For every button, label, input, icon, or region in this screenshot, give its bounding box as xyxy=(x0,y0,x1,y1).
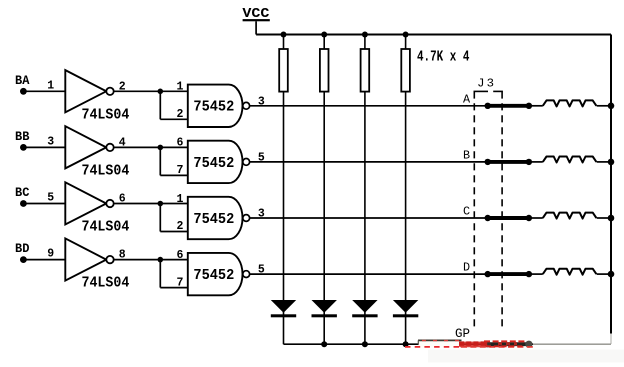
wire inverter output pin 8 to NAND pin 6 xyxy=(114,249,188,262)
diode D3 xyxy=(352,300,377,317)
svg-text:7: 7 xyxy=(177,276,184,289)
resistor R1 4.7K xyxy=(279,49,288,92)
svg-text:4.7K x 4: 4.7K x 4 xyxy=(417,50,470,66)
svg-text:A: A xyxy=(463,92,471,106)
node BD input terminal xyxy=(15,242,30,263)
inverter U1D 74LS04 xyxy=(65,238,129,291)
svg-text:74LS04: 74LS04 xyxy=(82,106,130,123)
wire inverter output pin 2 to NAND pin 1 xyxy=(114,80,188,93)
wire column 3 vertical xyxy=(364,35,366,345)
wire coil to right rail B xyxy=(597,161,611,163)
wire bar to coil C xyxy=(529,217,543,219)
power VCC xyxy=(242,6,270,34)
wire column 4 vertical xyxy=(405,35,407,345)
svg-text:1: 1 xyxy=(177,193,184,206)
connector bar B xyxy=(485,159,533,165)
junction right rail B xyxy=(608,159,615,166)
svg-text:BC: BC xyxy=(15,186,30,200)
svg-text:6: 6 xyxy=(177,137,184,150)
junction right rail D xyxy=(608,271,615,278)
svg-text:3: 3 xyxy=(47,135,54,148)
svg-text:J: J xyxy=(477,76,484,90)
resistor R2 4.7K xyxy=(320,49,329,92)
driver U2C 75452 xyxy=(188,197,250,239)
svg-text:74LS04: 74LS04 xyxy=(82,219,130,236)
svg-text:BD: BD xyxy=(15,242,30,256)
connector J3 outline xyxy=(474,76,503,326)
svg-text:9: 9 xyxy=(47,248,54,261)
inverter U1A 74LS04 xyxy=(65,70,129,123)
inductor L2 phase B xyxy=(543,157,597,163)
connector bar D xyxy=(485,271,533,277)
driver U2B 75452 xyxy=(188,141,250,183)
svg-text:6: 6 xyxy=(119,193,126,206)
wire BD to inverter, pin 9 xyxy=(23,248,65,261)
wire coil to right rail D xyxy=(597,273,611,275)
diode D2 xyxy=(312,300,337,317)
wire feedback to NAND pin 7 xyxy=(160,147,188,177)
connector bar GP xyxy=(485,341,533,348)
svg-text:7: 7 xyxy=(177,164,184,177)
wire NAND output pin 3 line C xyxy=(250,208,488,221)
svg-text:5: 5 xyxy=(47,192,54,205)
svg-text:3: 3 xyxy=(258,95,265,108)
inductor L4 phase D xyxy=(543,269,597,275)
junction right rail A xyxy=(608,103,615,110)
svg-text:75452: 75452 xyxy=(193,99,234,116)
svg-text:GP: GP xyxy=(455,326,470,341)
inverter U1C 74LS04 xyxy=(65,182,129,235)
inductor L3 phase C xyxy=(543,213,597,219)
junction inverter output row BA xyxy=(158,89,164,95)
diode D1 xyxy=(271,300,296,317)
svg-text:6: 6 xyxy=(177,249,184,262)
wire bar to coil A xyxy=(529,105,543,107)
connector bar C xyxy=(485,215,533,221)
node BA input terminal xyxy=(15,74,30,95)
wire VCC rail xyxy=(256,34,611,36)
svg-text:2: 2 xyxy=(177,220,184,233)
svg-text:74LS04: 74LS04 xyxy=(82,275,130,292)
connector bar A xyxy=(485,103,533,109)
wire coil to right rail A xyxy=(597,105,611,107)
resistor R3 4.7K xyxy=(361,49,370,92)
svg-text:1: 1 xyxy=(177,81,184,94)
svg-text:C: C xyxy=(463,205,470,219)
wire inverter output pin 4 to NAND pin 6 xyxy=(114,136,188,149)
inductor L1 phase A xyxy=(543,100,597,106)
svg-text:4: 4 xyxy=(119,136,126,149)
junction VCC rail col 3 xyxy=(362,32,368,38)
junction bottom rail col 3 xyxy=(362,341,368,347)
junction inverter output row BC xyxy=(158,201,164,207)
wire BC to inverter, pin 5 xyxy=(23,192,65,205)
junction inverter output row BB xyxy=(158,145,164,151)
junction VCC rail col 4 xyxy=(403,32,409,38)
junction VCC rail col 1 xyxy=(281,32,287,38)
wire bottom GP rail xyxy=(284,343,612,345)
junction VCC rail col 2 xyxy=(321,32,327,38)
wire feedback to NAND pin 2 xyxy=(160,91,188,121)
svg-text:75452: 75452 xyxy=(193,267,234,284)
driver U2A 75452 xyxy=(188,85,250,127)
junction bottom rail col 4 xyxy=(403,341,409,347)
svg-text:BA: BA xyxy=(15,74,30,88)
svg-text:8: 8 xyxy=(119,249,126,262)
svg-text:1: 1 xyxy=(47,79,54,92)
node BB input terminal xyxy=(15,130,30,151)
wire bar to coil B xyxy=(529,161,543,163)
wire column 2 vertical xyxy=(323,35,325,345)
svg-text:2: 2 xyxy=(177,108,184,121)
svg-text:3: 3 xyxy=(487,76,494,90)
svg-text:2: 2 xyxy=(119,80,126,93)
inverter U1B 74LS04 xyxy=(65,126,129,179)
svg-text:5: 5 xyxy=(258,151,265,164)
svg-text:BB: BB xyxy=(15,130,30,144)
wire bar to coil D xyxy=(529,273,543,275)
wire BA to inverter, pin 1 xyxy=(23,79,65,92)
watermark (red, partially erased) xyxy=(405,340,624,363)
diode D4 xyxy=(393,300,418,317)
wire BB to inverter, pin 3 xyxy=(23,135,65,148)
resistor R4 4.7K xyxy=(401,49,410,92)
junction right rail C xyxy=(608,215,615,222)
wire feedback to NAND pin 2 xyxy=(160,204,188,234)
wire inverter output pin 6 to NAND pin 1 xyxy=(114,193,188,206)
svg-text:75452: 75452 xyxy=(193,211,234,228)
svg-text:B: B xyxy=(463,149,470,163)
svg-text:5: 5 xyxy=(258,264,265,277)
svg-text:D: D xyxy=(463,261,470,275)
svg-text:75452: 75452 xyxy=(193,155,234,172)
wire right rail xyxy=(610,35,612,345)
junction inverter output row BD xyxy=(158,257,164,263)
wire column 1 vertical xyxy=(283,35,285,345)
svg-text:3: 3 xyxy=(258,208,265,221)
junction bottom rail col 2 xyxy=(321,341,327,347)
wire NAND output pin 3 line A xyxy=(250,95,488,108)
svg-text:74LS04: 74LS04 xyxy=(82,163,130,180)
node BC input terminal xyxy=(15,186,30,207)
driver U2D 75452 xyxy=(188,253,250,295)
wire feedback to NAND pin 7 xyxy=(160,260,188,290)
wire coil to right rail C xyxy=(597,217,611,219)
wire NAND output pin 5 line B xyxy=(250,151,488,164)
wire NAND output pin 5 line D xyxy=(250,264,488,277)
